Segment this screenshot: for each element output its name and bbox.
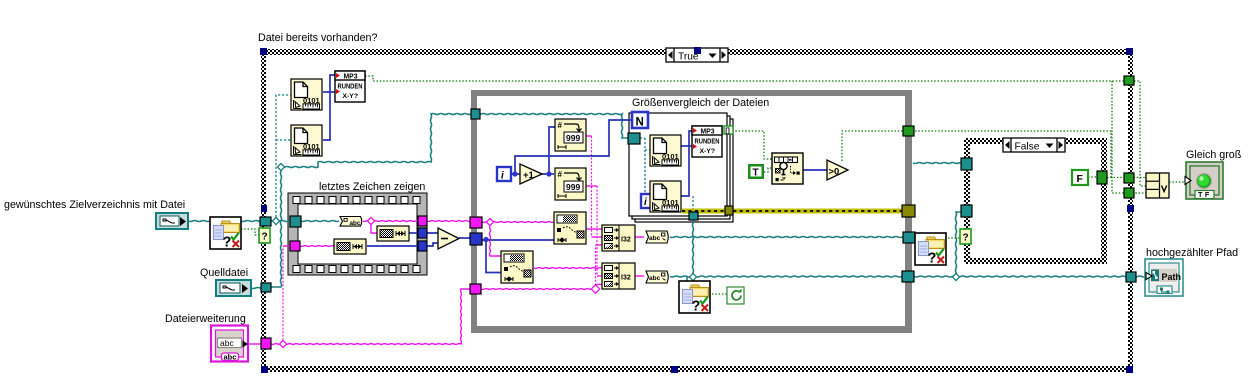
svg-text:TF: TF (1198, 190, 1212, 199)
svg-text:abc: abc (220, 338, 234, 348)
svg-text:+1: +1 (523, 170, 535, 181)
svg-text:[]: [] (725, 128, 730, 135)
svg-text:T: T (753, 168, 759, 179)
svg-text:N: N (636, 117, 644, 129)
svg-text:abc: abc (350, 220, 361, 227)
svg-text:Größenvergleich der Dateien: Größenvergleich der Dateien (632, 97, 769, 109)
svg-text:i: i (501, 171, 504, 182)
svg-text:F: F (1077, 173, 1084, 185)
svg-text:hochgezählter Pfad: hochgezählter Pfad (1146, 247, 1238, 259)
svg-text:Dateierweiterung: Dateierweiterung (165, 313, 246, 325)
svg-text:Gleich groß: Gleich groß (1186, 149, 1242, 161)
svg-text:False: False (1015, 142, 1040, 153)
svg-text:Path: Path (1162, 272, 1182, 282)
svg-text:?: ? (963, 233, 969, 244)
svg-text:Quelldatei: Quelldatei (200, 267, 248, 279)
svg-text:letztes Zeichen zeigen: letztes Zeichen zeigen (319, 181, 425, 193)
svg-text:?: ? (262, 232, 268, 243)
svg-text:Datei bereits vorhanden?: Datei bereits vorhanden? (258, 32, 377, 44)
svg-text:>0: >0 (829, 167, 840, 178)
svg-text:abc: abc (224, 353, 237, 362)
svg-text:i: i (644, 197, 647, 208)
svg-text:gewünschtes Zielverzeichnis mi: gewünschtes Zielverzeichnis mit Datei (4, 199, 185, 211)
